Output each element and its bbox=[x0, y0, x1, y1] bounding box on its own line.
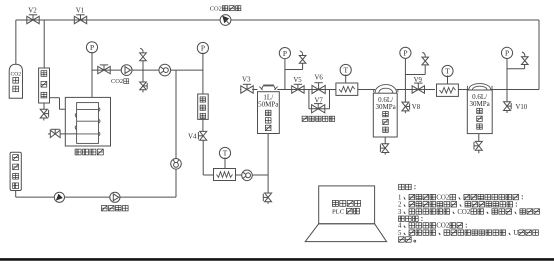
svg-text:CO2: CO2 bbox=[11, 71, 22, 77]
svg-text:V6: V6 bbox=[315, 74, 324, 81]
svg-text:V7: V7 bbox=[315, 97, 324, 104]
svg-text:U: U bbox=[513, 230, 518, 237]
svg-text:CO2: CO2 bbox=[436, 194, 449, 201]
svg-text:V1: V1 bbox=[76, 7, 85, 15]
svg-text:2: 2 bbox=[398, 202, 402, 209]
svg-text:T: T bbox=[223, 149, 228, 158]
svg-text:V9: V9 bbox=[414, 77, 423, 84]
svg-text:V2: V2 bbox=[28, 7, 37, 15]
svg-text:P: P bbox=[403, 49, 407, 58]
svg-text:V8: V8 bbox=[412, 104, 421, 111]
svg-text:30MPa: 30MPa bbox=[469, 100, 490, 108]
svg-text:V10: V10 bbox=[516, 104, 528, 111]
svg-text:1: 1 bbox=[398, 194, 401, 201]
svg-text:4: 4 bbox=[398, 223, 402, 230]
svg-text:V3: V3 bbox=[242, 75, 251, 83]
svg-text:3: 3 bbox=[398, 209, 402, 216]
svg-text:V4: V4 bbox=[188, 133, 197, 141]
svg-text:P: P bbox=[505, 49, 509, 58]
svg-text:30MPa: 30MPa bbox=[375, 103, 396, 111]
svg-text:V5: V5 bbox=[293, 77, 302, 84]
svg-text:T: T bbox=[343, 66, 348, 75]
svg-text:P: P bbox=[90, 43, 94, 52]
svg-text:P: P bbox=[283, 49, 287, 58]
svg-text:T: T bbox=[445, 67, 450, 76]
svg-text:CO2: CO2 bbox=[111, 78, 123, 85]
svg-text:5: 5 bbox=[398, 230, 402, 237]
svg-text:50MPa: 50MPa bbox=[258, 101, 279, 109]
svg-text:PLC: PLC bbox=[332, 209, 345, 216]
svg-text:P: P bbox=[201, 44, 205, 53]
svg-text:CO2: CO2 bbox=[436, 223, 449, 230]
svg-text:CO2: CO2 bbox=[457, 209, 470, 216]
svg-text:CO2: CO2 bbox=[210, 5, 222, 12]
